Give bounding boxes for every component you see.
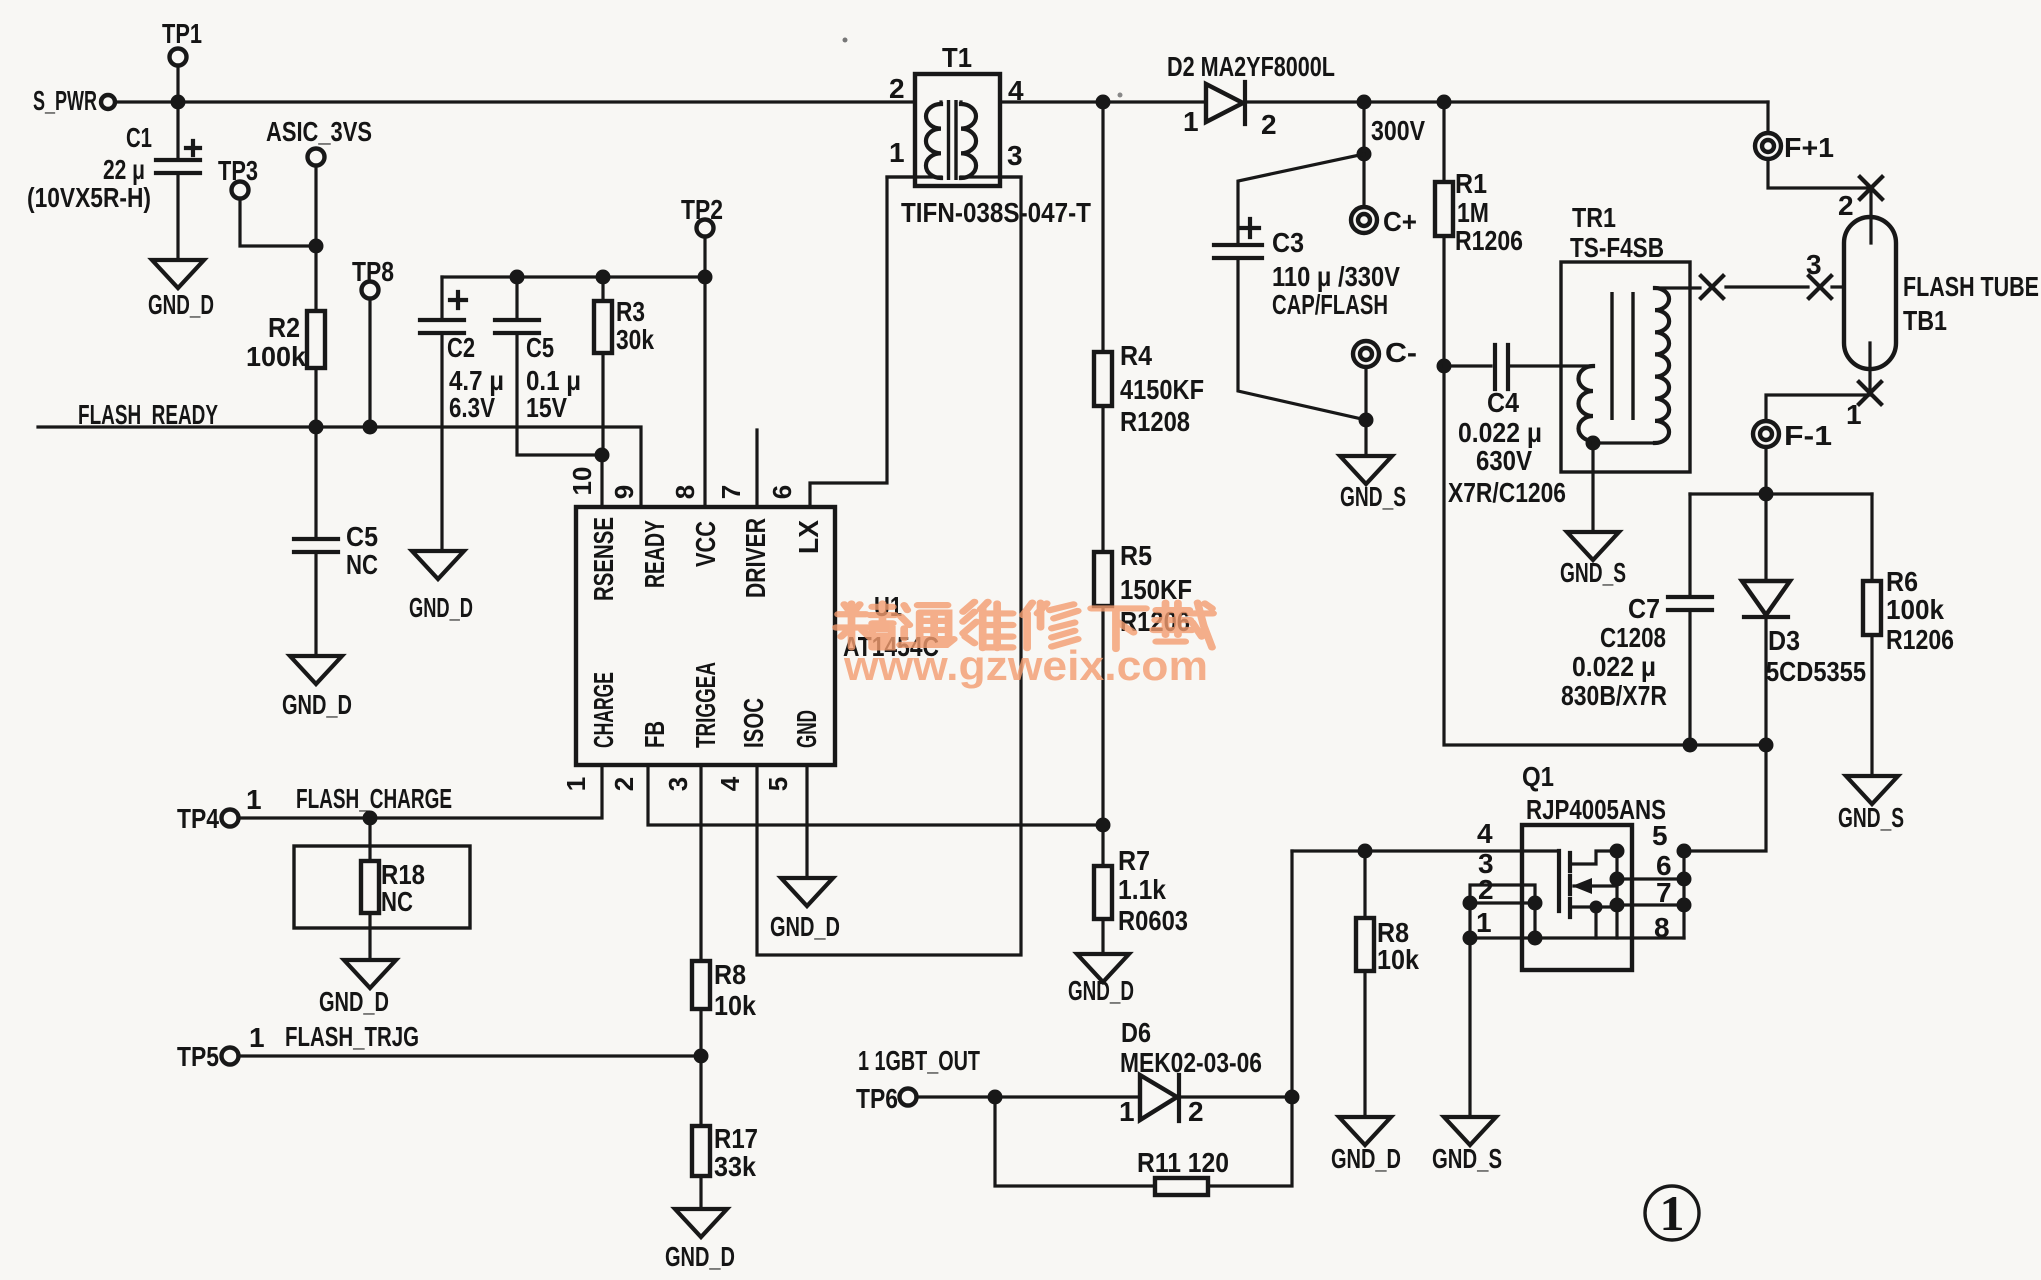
resistor R17 33k [692,1126,710,1176]
svg-text:8: 8 [670,485,700,499]
X mark tube pin 1 [1859,382,1881,404]
svg-text:GND_S: GND_S [1432,1143,1502,1174]
wire D3 bottom down to Q1 pin5 bus [1684,745,1766,851]
wire gate pin 4 [1292,849,1559,852]
svg-text:1: 1 [1183,106,1199,137]
svg-text:DRIVER: DRIVER [740,518,771,598]
svg-text:3: 3 [663,777,693,791]
junction TP3/ASIC_3VS [309,239,324,254]
svg-text:1: 1 [1119,1096,1135,1127]
wire tube electrode 1 [1766,343,1870,421]
svg-text:F+1: F+1 [1784,132,1834,163]
svg-text:C5: C5 [526,332,554,363]
wire 300V down [1362,102,1365,154]
pin 7 DRIVER stub [755,430,758,507]
wire C2 to ground [440,333,443,551]
svg-text:830B/X7R: 830B/X7R [1561,680,1667,711]
wire U1 pin 2 FB to divider [648,765,1103,825]
wire U1 pin 3 TRIGGEA down to R8 [699,765,702,961]
svg-text:GND_D: GND_D [1331,1143,1401,1174]
wire U1 pin 4 ISOC to T1 pin 3 [757,177,1021,955]
svg-text:CAP/FLASH: CAP/FLASH [1272,289,1388,320]
Q1 pin wires 5-8 [1535,879,1684,938]
X mark tube pin 2 [1860,177,1882,199]
junction D6/R11 output [1285,1090,1300,1105]
resistor R6 100k [1870,494,1873,581]
ground GND_S under R6 [1846,776,1898,804]
ground GND_D under R18 [344,960,396,988]
resistor R8 10k (divider) [692,961,710,1009]
svg-text:2: 2 [889,73,905,104]
svg-text:R7: R7 [1118,845,1150,876]
svg-text:100k: 100k [1886,594,1944,625]
svg-text:4: 4 [1008,75,1024,106]
ground GND_D under C5 NC [290,656,342,684]
svg-text:5: 5 [763,777,793,791]
junction C7 bottom [1683,738,1698,753]
wire R1 bottom loop to snubber bottom rail [1444,366,1766,745]
wire C5 NC to ground [314,552,317,656]
terminal F-1 [1753,421,1779,447]
wire U1 pin 6 LX to T1 pin 1 [810,177,941,507]
wire TR1 secondary to tube electrode 3 [1655,287,1845,288]
svg-text:(10VX5R-H): (10VX5R-H) [27,182,151,213]
svg-text:TS-F4SB: TS-F4SB [1570,232,1664,263]
wire VCC rail C2/C5/R3/TP2 [442,275,705,278]
diode D3 5CD5355 [1764,494,1767,581]
svg-text:3: 3 [1007,140,1023,171]
wire main top rail S_PWR [115,100,1768,103]
wire F+1 to tube electrode 2 [1768,159,1871,243]
capacitor C7 0.022u [1688,494,1691,595]
svg-text:100k: 100k [246,341,306,372]
wire R11 lower path [995,851,1292,1186]
junction 300V node [1357,95,1372,110]
svg-text:R3: R3 [616,296,645,327]
svg-text:0.022 μ: 0.022 μ [1572,651,1656,682]
svg-text:1: 1 [246,784,262,815]
svg-text:R0603: R0603 [1118,905,1188,936]
junction rail/R1 [1437,95,1452,110]
svg-text:ASIC_3VS: ASIC_3VS [266,116,372,147]
junction TP4/R18 [363,811,378,826]
Q1 external bus [1682,851,1685,938]
wire TR1 to ground [1591,443,1594,532]
svg-text:LX: LX [793,520,824,554]
wire diagonal to C3 [1238,154,1364,242]
scan speck [1118,93,1123,98]
svg-text:1M: 1M [1457,197,1489,228]
Q1 source link [1594,907,1597,938]
Q1 body diode arrow [1574,884,1617,887]
wire TP3 to ASIC_3VS node [240,199,316,246]
svg-text:TB1: TB1 [1903,305,1947,336]
resistor R7 1.1k [1101,825,1104,866]
wire U1 pin 1 CHARGE to TP4 [238,765,602,818]
svg-text:TR1: TR1 [1572,202,1616,233]
svg-text:C4: C4 [1487,387,1519,418]
ground GND_S under Q1 [1444,1117,1496,1145]
svg-text:R11 120: R11 120 [1137,1147,1229,1178]
svg-text:15V: 15V [526,392,567,423]
T1 secondary winding [961,104,976,178]
svg-text:5: 5 [1652,820,1668,851]
svg-text:6.3V: 6.3V [449,392,495,423]
T1 core [949,100,957,180]
watermark char xiu [1023,603,1078,649]
svg-text:1: 1 [1660,1185,1685,1241]
watermark char xia [1091,608,1146,649]
svg-text:1: 1 [889,137,905,168]
svg-text:CHARGE: CHARGE [588,672,619,748]
capacitor C4 0.022u 630V [1444,364,1491,367]
wire TP8 down [368,299,371,427]
Q1 source stub [1570,905,1617,908]
ground GND_D under R8 [1339,1117,1391,1145]
scan speck [843,38,848,43]
svg-text:FLASH_TRJG: FLASH_TRJG [285,1021,419,1052]
ground GND_D under C2 [412,551,464,579]
terminal C+ [1362,154,1365,207]
svg-text:D2 MA2YF8000L: D2 MA2YF8000L [1167,51,1335,82]
svg-text:3: 3 [1806,249,1822,280]
Q1 gate bar [1557,851,1561,911]
X mark tube pin 3 [1809,276,1831,298]
capacitor C3 110u/330V [1214,245,1262,258]
TR1 primary winding [1579,366,1594,441]
watermark char wei [963,602,1013,648]
svg-text:RJP4005ANS: RJP4005ANS [1526,794,1666,825]
capacitor C5 NC [314,427,317,537]
wire U1 pin 5 GND to ground [805,765,808,876]
junction D3 bottom [1759,738,1774,753]
svg-text:ISOC: ISOC [738,698,769,748]
watermark char jing [836,603,895,647]
svg-text:F-1: F-1 [1784,420,1832,451]
watermark char zai [1153,603,1213,648]
wire D6 to Q1 gate node [1181,1095,1292,1098]
svg-text:C2: C2 [447,332,475,363]
svg-text:4: 4 [1477,818,1493,849]
svg-text:9: 9 [609,485,639,499]
svg-text:GND_S: GND_S [1560,557,1626,588]
svg-text:30k: 30k [616,324,654,355]
svg-text:TP1: TP1 [162,18,202,49]
svg-text:110 μ /330V: 110 μ /330V [1272,261,1400,292]
svg-text:GND_D: GND_D [665,1241,735,1272]
wire snubber top rail [1690,492,1872,495]
svg-text:5CD5355: 5CD5355 [1766,656,1866,687]
svg-text:R5: R5 [1120,540,1152,571]
svg-text:C5: C5 [346,521,378,552]
resistor R1 1M [1442,102,1445,182]
svg-text:C7: C7 [1628,593,1660,624]
svg-text:R4: R4 [1120,340,1152,371]
svg-text:1.1k: 1.1k [1118,874,1166,905]
resistor R3 30k [601,277,604,301]
flash tube TB1 [1844,217,1896,369]
junction C5 0.1u on VCC rail [510,270,525,285]
svg-text:GND_D: GND_D [409,592,473,623]
resistor R2 100k [307,311,325,368]
ground GND_D under C1 [152,260,204,288]
junction TP5/R8/R17 [694,1049,709,1064]
svg-text:READY: READY [639,520,670,588]
wire C3 bottom diagonal [1238,258,1366,420]
junction F-1/snubber rail [1759,487,1774,502]
svg-text:22 μ: 22 μ [103,154,145,185]
svg-text:GND_D: GND_D [282,689,352,720]
svg-text:33k: 33k [714,1151,756,1182]
svg-text:2: 2 [609,777,639,791]
svg-text:2: 2 [1838,190,1854,221]
resistor R11 120 [1155,1178,1208,1195]
svg-text:7: 7 [1656,877,1672,908]
svg-text:VCC: VCC [690,521,721,567]
junction R3 top on VCC rail [596,270,611,285]
svg-text:TRIGGEA: TRIGGEA [690,662,721,748]
wire F-1 down to snubber rail [1764,447,1767,494]
op-amp U1 AT1454C IC box [576,507,835,765]
svg-text:GND_D: GND_D [1068,975,1134,1006]
junction R8/gate [1358,844,1373,859]
svg-text:0.022 μ: 0.022 μ [1458,417,1542,448]
X mark trigger wire [1701,276,1723,298]
junction R3/C5/pin10 [595,448,610,463]
wire C5 0.1u to pin10 node [517,333,602,455]
svg-text:GND: GND [791,710,822,748]
svg-text:TP4: TP4 [177,803,219,834]
svg-text:630V: 630V [1476,445,1532,476]
svg-text:300V: 300V [1371,115,1425,146]
terminal C- [1353,341,1379,367]
svg-text:FLASH TUBE: FLASH TUBE [1903,271,2039,302]
wire to U1 pin 10 [600,455,603,507]
TR1 secondary winding [1655,288,1669,443]
junction C3/C+ [1357,147,1372,162]
svg-text:2: 2 [1188,1096,1204,1127]
page number symbol 1 [1645,1186,1699,1240]
junction TR1 primary/secondary bottom [1586,436,1601,451]
junction C3/C- to ground [1359,413,1374,428]
svg-text:GND_S: GND_S [1838,802,1904,833]
svg-text:4150KF: 4150KF [1120,374,1204,405]
svg-text:R1206: R1206 [1886,624,1954,655]
capacitor C1 [176,102,179,158]
capacitor C5 0.1u [515,277,518,318]
svg-text:4: 4 [715,776,745,791]
ground GND_S under TR1 [1567,532,1619,560]
svg-text:www.gzweix.com: www.gzweix.com [843,642,1208,689]
svg-text:GND_D: GND_D [770,911,840,942]
svg-text:1: 1 [1846,399,1862,430]
svg-text:1: 1 [1476,907,1492,938]
svg-text:Q1: Q1 [1522,761,1554,792]
junction rail/R4 [1096,95,1111,110]
wire ASIC_3VS down to R2 [314,166,317,311]
junction TP8/FLASH_READY [363,420,378,435]
T1 primary winding [926,104,941,178]
ground GND_D under R17 [675,1209,727,1237]
svg-text:T1: T1 [942,42,972,73]
junction R1/C4/loop [1437,359,1452,374]
svg-text:R1206: R1206 [1455,225,1523,256]
junction R2/FLASH_READY [309,420,324,435]
svg-text:D6: D6 [1121,1017,1151,1048]
svg-text:GND_D: GND_D [319,986,389,1017]
svg-text:10k: 10k [714,990,756,1021]
Q1 pins 1/2/3 link box [1470,885,1535,938]
wire TP5 to R8/R17 [238,1054,701,1057]
ground GND_S under C3 [1340,456,1392,484]
svg-text:R6: R6 [1886,566,1918,597]
ground GND_D under U1 pin 5 [781,878,833,906]
svg-text:TIFN-038S-047-T: TIFN-038S-047-T [901,197,1091,228]
svg-text:R17: R17 [714,1123,758,1154]
svg-text:2: 2 [1478,874,1494,905]
wire Q1 pins 1/2/3 to ground [1468,938,1471,1117]
svg-text:FLASH_READY: FLASH_READY [78,399,218,430]
svg-text:GND_D: GND_D [148,289,214,320]
wire R5 to FB junction [1101,606,1104,825]
svg-text:TP6: TP6 [856,1083,898,1114]
svg-text:TP5: TP5 [177,1041,219,1072]
svg-text:RSENSE: RSENSE [588,517,619,601]
svg-text:7: 7 [716,485,746,499]
svg-text:1 1GBT_OUT: 1 1GBT_OUT [858,1045,980,1076]
svg-text:GND_S: GND_S [1340,481,1406,512]
svg-text:R2: R2 [268,312,300,343]
TR1 core [1612,292,1633,420]
wire C1 to ground [176,173,179,260]
svg-text:6: 6 [767,485,797,499]
svg-text:S_PWR: S_PWR [33,85,97,116]
svg-text:10k: 10k [1377,944,1419,975]
svg-text:2: 2 [1261,109,1277,140]
svg-text:FLASH_CHARGE: FLASH_CHARGE [296,783,452,814]
svg-text:D3: D3 [1768,625,1800,656]
watermark char tong [900,605,954,645]
resistor R4 4150KF [1101,102,1104,352]
svg-text:X7R/C1206: X7R/C1206 [1448,477,1566,508]
wire R4 to R5 [1101,406,1104,552]
Q1 drain stub [1570,851,1617,864]
capacitor C2 4.7u [440,277,443,318]
svg-text:1: 1 [249,1022,265,1053]
junction FB/R5/R7 [1096,818,1111,833]
svg-text:C+: C+ [1383,206,1417,237]
svg-text:C3: C3 [1272,227,1304,258]
wire TP6 to D6 [916,1095,1142,1098]
ground GND_D under R7 [1077,954,1129,982]
svg-text:1: 1 [561,777,591,791]
svg-text:150KF: 150KF [1120,574,1192,605]
svg-text:C1: C1 [126,122,152,153]
junction TP2/VCC pin8 [698,270,713,285]
svg-text:R1: R1 [1455,168,1487,199]
junction TP6/R11 [988,1090,1003,1105]
Q1 channel dashes [1568,853,1572,917]
Q1 internal bus [1615,851,1618,938]
wire TP2 to VCC rail [703,237,706,277]
resistor R8 10k (gate) [1363,851,1366,918]
svg-text:C1208: C1208 [1600,622,1666,653]
resistor R5 150KF [1094,552,1112,606]
resistor R18 NC in box [294,846,470,928]
svg-text:8: 8 [1654,912,1670,943]
svg-text:10: 10 [567,467,597,496]
wire R2 to FLASH_READY [314,368,317,427]
node S_PWR terminal [101,95,115,109]
terminal F+1 [1766,102,1769,133]
svg-text:C-: C- [1385,337,1417,368]
svg-text:R1208: R1208 [1120,406,1190,437]
junction at TP1/C1 on rail [171,95,186,110]
wire VCC rail to U1 pin 8 [703,277,706,507]
svg-text:FB: FB [639,721,670,748]
svg-text:NC: NC [381,886,413,917]
svg-text:NC: NC [346,549,378,580]
svg-text:R8: R8 [714,959,746,990]
